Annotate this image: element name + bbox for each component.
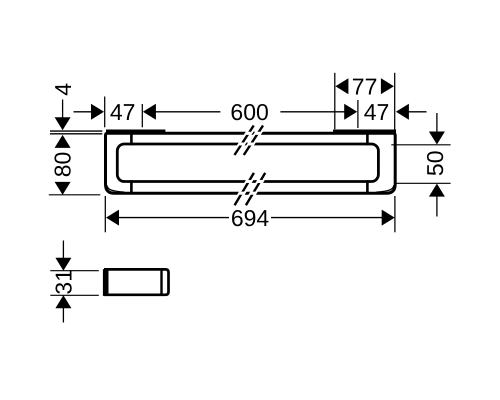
side view: end-cap seam xyxy=(160,269,162,294)
svg-text:80: 80 xyxy=(50,152,76,178)
dim 50 leader lines xyxy=(436,113,438,217)
tick line bar-bottom level xyxy=(49,194,101,196)
tick line bar-top level xyxy=(50,133,102,135)
extension line 77 left xyxy=(334,73,336,129)
extension line 47-right inner xyxy=(357,100,359,128)
svg-text:50: 50 xyxy=(422,151,448,177)
side view: body outline xyxy=(104,269,169,294)
arrow dim80 up xyxy=(55,135,71,148)
front view: bottom-right corner profile arc xyxy=(376,185,394,192)
tick line 50 top xyxy=(391,144,450,146)
arrow dim694 left xyxy=(106,210,119,226)
front view: left wall plate xyxy=(106,130,165,134)
arrow dim31 up xyxy=(55,295,71,308)
dim 47-left tail line xyxy=(74,111,92,113)
extension line below bar left xyxy=(104,196,106,232)
dim 31 leader lines xyxy=(62,241,64,323)
front view: left end-cap seam xyxy=(130,135,133,193)
svg-text:600: 600 xyxy=(230,99,268,125)
front view: inner bar outline xyxy=(117,144,378,182)
front view: right wall plate xyxy=(333,130,396,134)
arrow dim77 right xyxy=(381,78,394,94)
break mark lower xyxy=(235,173,266,205)
svg-text:47: 47 xyxy=(110,99,136,125)
svg-text:694: 694 xyxy=(231,205,270,231)
tick line plate-top level xyxy=(50,130,102,132)
extension line 77 right / right bar edge top xyxy=(394,73,396,132)
dim 694 line segments xyxy=(117,217,382,219)
front view: right end-cap seam xyxy=(366,135,369,193)
arrow dim80 down xyxy=(55,182,71,195)
break nicks lower xyxy=(247,180,263,183)
svg-text:77: 77 xyxy=(352,74,378,100)
svg-text:31: 31 xyxy=(51,269,77,295)
extension line below bar right xyxy=(394,196,396,232)
arrow dim47R left-pointing xyxy=(396,104,409,120)
tick line 31 top xyxy=(50,270,99,272)
arrow dim31 down xyxy=(55,258,71,271)
svg-text:4: 4 xyxy=(50,83,76,96)
arrow dim694 right xyxy=(382,210,395,226)
arrow dim600 right xyxy=(344,104,357,120)
arrow dim50 down xyxy=(429,132,445,145)
arrow dim77 left xyxy=(335,78,348,94)
arrow dim50 up xyxy=(429,184,445,197)
dim 4 leader line xyxy=(62,100,64,118)
extension line left bar edge (top) xyxy=(104,97,106,128)
dim 600 line segments xyxy=(156,111,345,113)
break mark upper xyxy=(235,126,264,156)
arrow dim4 down xyxy=(55,117,71,130)
tick line 31 bottom xyxy=(50,294,99,296)
extension line 47-left inner xyxy=(141,104,143,127)
front view: outer bar outline xyxy=(106,133,396,193)
break nicks upper xyxy=(246,132,260,135)
arrow dim47L/600 left xyxy=(143,104,156,120)
front view: bottom-left corner profile arc xyxy=(107,185,125,192)
side view: wall plate xyxy=(103,269,109,296)
svg-text:47: 47 xyxy=(364,99,390,125)
tick line 50 bottom xyxy=(395,182,451,184)
arrow dim47L right xyxy=(91,104,104,120)
dim 47-right tail line xyxy=(409,111,427,113)
